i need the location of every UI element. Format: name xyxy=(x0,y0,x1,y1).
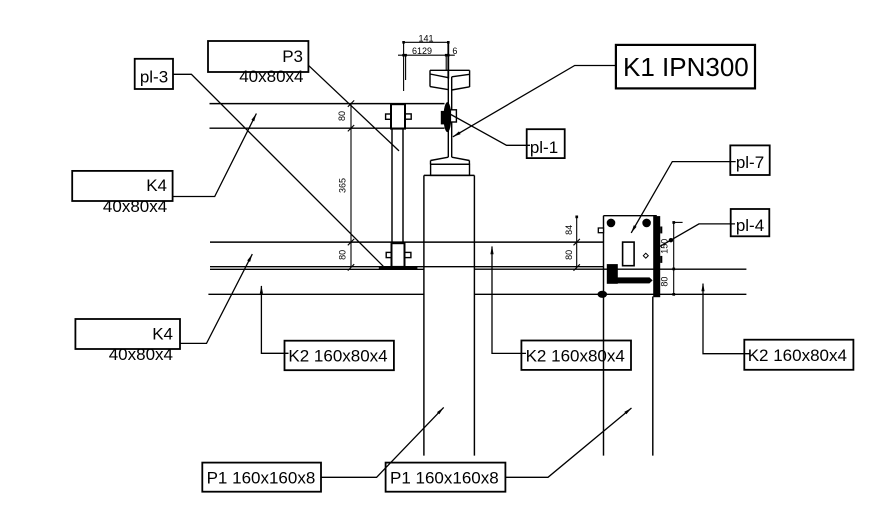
svg-text:P1 160x160x8: P1 160x160x8 xyxy=(390,469,499,488)
svg-text:P1 160x160x8: P1 160x160x8 xyxy=(207,469,316,488)
svg-text:80: 80 xyxy=(337,250,347,260)
svg-text:40x80x4: 40x80x4 xyxy=(109,345,173,364)
svg-text:6129: 6129 xyxy=(412,46,432,56)
svg-text:K2 160x80x4: K2 160x80x4 xyxy=(526,346,625,365)
svg-text:pl-7: pl-7 xyxy=(736,153,764,172)
svg-text:K2 160x80x4: K2 160x80x4 xyxy=(288,346,387,365)
svg-text:K2 160x80x4: K2 160x80x4 xyxy=(748,346,847,365)
svg-text:K4: K4 xyxy=(146,176,167,195)
svg-text:K4: K4 xyxy=(152,325,173,344)
svg-text:80: 80 xyxy=(564,250,574,260)
svg-text:40x80x4: 40x80x4 xyxy=(239,67,303,86)
svg-text:pl-4: pl-4 xyxy=(736,216,764,235)
svg-text:K1 IPN300: K1 IPN300 xyxy=(623,52,749,82)
svg-text:84: 84 xyxy=(564,225,574,235)
svg-text:6: 6 xyxy=(452,46,457,56)
svg-text:P3: P3 xyxy=(282,47,303,66)
svg-text:365: 365 xyxy=(337,178,347,193)
svg-text:80: 80 xyxy=(660,277,670,287)
svg-text:pl-1: pl-1 xyxy=(530,138,558,157)
svg-text:80: 80 xyxy=(337,111,347,121)
svg-text:40x80x4: 40x80x4 xyxy=(103,197,167,216)
svg-text:141: 141 xyxy=(418,33,433,43)
svg-text:pl-3: pl-3 xyxy=(140,68,168,87)
